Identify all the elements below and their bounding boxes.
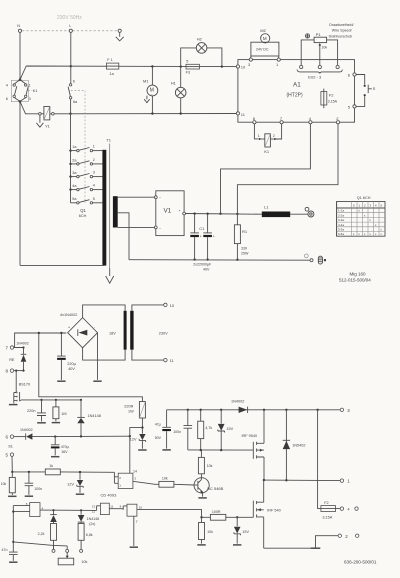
trimmer 10k [52,549,88,564]
CD4093 gate G4 (trigger gate) [114,472,136,488]
svg-text:M2: M2 [260,28,266,33]
svg-text:636-200-500/01: 636-200-500/01 [344,559,377,564]
capacitor C1a [190,214,202,261]
wiper feedback wire [13,542,67,549]
bridge rectifier 4x1N4002 [60,313,98,348]
svg-text:3-3a: 3-3a [338,218,344,222]
reservoir capacitor 47u 50V [155,410,171,449]
wire A1 pin 2 to R1 top [237,124,338,214]
svg-text:Drahtvorschub: Drahtvorschub [329,34,352,38]
switch K1 (DPST mains switch) [6,78,38,102]
switch Q1 contact 1a [71,145,103,152]
svg-text:BS170: BS170 [19,382,30,386]
oscillator gate G2 [92,503,114,514]
IRF9540 gate line [188,449,254,451]
zener 12V (gate input clamp) [67,472,83,493]
terminal 1 [340,479,350,484]
+18V unregulated feed to 220R [39,333,143,402]
fuse F1 1a [106,58,118,76]
svg-text:M: M [263,36,267,41]
gate pulldown 10k [199,516,214,544]
svg-text:K1: K1 [33,88,39,93]
bridge AC bottom to 18V winding [83,348,126,360]
svg-text:K1: K1 [264,149,270,154]
wire 12V node to terminal-6 line [130,428,143,437]
wire terminal 7 to +18V rail [14,333,67,348]
svg-text:N: N [17,24,20,28]
plus output terminal [305,207,314,217]
lamp H1 [171,67,186,115]
svg-text:5: 5 [93,197,95,201]
svg-text:4,7k: 4,7k [205,426,212,430]
wire K1 to left down-rail [19,102,21,266]
svg-text:220R: 220R [124,404,133,408]
svg-text:25W: 25W [241,251,249,255]
BS170 source ground [9,404,18,406]
svg-text:L1: L1 [264,205,269,210]
svg-text:5-5a: 5-5a [338,228,344,232]
svg-text:E02 - 3: E02 - 3 [308,74,322,79]
terminal 5 [6,453,14,458]
svg-text:IRF 540: IRF 540 [267,508,281,512]
CD4093 Vdd pin 14 feed [129,436,131,473]
switch Q1 contact 3a [71,171,103,178]
node H1 tap [180,65,182,67]
svg-text:100n: 100n [173,430,181,434]
svg-text:+: + [213,235,215,239]
svg-text:10k: 10k [207,530,213,534]
resistor 220R 1W [124,402,145,429]
svg-text:C1: C1 [199,226,205,231]
svg-text:F 1: F 1 [107,58,113,62]
tap table Q1 6CH [337,196,385,236]
zener 15V (IRF540 gate) [234,516,250,544]
svg-text:1: 1 [29,84,31,88]
svg-text:6,8k: 6,8k [86,533,93,537]
minus rail [129,259,310,262]
relay coil K1 [254,124,281,154]
svg-text:2: 2 [273,134,275,138]
svg-text:2,2k: 2,2k [38,532,45,536]
svg-text:3,15A: 3,15A [322,516,332,520]
svg-text:M1: M1 [143,79,149,84]
node H2 return tap [221,65,223,67]
svg-text:Wire Speed/: Wire Speed/ [332,29,352,33]
wire N down to K1 [19,32,21,79]
motor M1 (fan) [143,67,158,115]
svg-text:Q1: Q1 [80,208,86,213]
svg-text:1N4002: 1N4002 [16,341,29,345]
svg-text:3: 3 [29,97,31,101]
control unit A1 (HT2P) [236,58,356,124]
terminal 6 [6,435,14,440]
minus output terminal [304,254,326,264]
220n ground [37,422,46,424]
terminal 11 [132,350,175,364]
svg-text:47n: 47n [2,548,8,552]
svg-text:4x1N4002: 4x1N4002 [60,313,77,317]
potentiometer P1 10k wire speed [301,32,337,66]
svg-text:A1: A1 [293,82,301,89]
svg-text:1-1a: 1-1a [338,209,344,213]
switch 6a [68,79,78,104]
svg-text:1: 1 [258,134,260,138]
M1 ground [144,96,149,103]
terminal N [17,24,21,32]
svg-text:~: ~ [159,196,161,200]
relay flyback diode 1N4002 (RE) [9,341,29,370]
svg-text:1N4002: 1N4002 [20,428,33,432]
output choke L1 [262,205,308,218]
svg-text:230V: 230V [159,331,168,335]
svg-text:12: 12 [92,509,96,513]
fuse F2 3.15A [321,501,340,519]
svg-text:CD 4093: CD 4093 [101,493,118,498]
G1 output wire [40,509,97,511]
diode 1N4002 (terminal 6) [14,428,54,440]
bottom rail junction at feed [70,114,72,203]
collector resistor 10k [198,450,212,474]
svg-text:F2: F2 [329,93,334,98]
steering diode 1N4148 b [78,510,99,526]
resistor 1k [45,464,114,475]
svg-text:10k: 10k [207,464,213,468]
gate G4 output to base resistor 10k [133,481,159,484]
svg-text:15V: 15V [242,530,249,534]
suppressor Y1 [39,107,55,129]
svg-text:F3: F3 [186,71,190,75]
svg-text:6CH: 6CH [79,214,87,218]
steering diode 1N4148 a [50,510,57,523]
svg-text:10k: 10k [162,477,168,481]
PSU transformer 18V winding [124,311,127,350]
timing capacitor 47n [2,548,18,561]
connector E02-3 [297,65,342,79]
svg-text:47µ: 47µ [155,423,161,427]
fuse F3 [186,60,200,75]
rectifier V1 [154,191,185,236]
svg-text:1N5402: 1N5402 [292,444,305,448]
1M ground [52,422,60,424]
node 6a/Q1 feed junction [69,113,71,115]
svg-text:4-4a: 4-4a [338,223,344,227]
wire bottom of primary [20,264,104,266]
svg-text:220n: 220n [27,409,35,413]
trigger node wire [12,471,45,473]
Y1 ground [36,115,43,127]
svg-text:100R: 100R [212,510,221,514]
resistor 100R [202,510,253,520]
wire secondary top tap to V1 [118,196,155,198]
BS170 gate line [21,399,81,401]
capacitor 220n [27,400,46,422]
svg-text:220µ: 220µ [67,362,76,366]
capacitor 100n (trigger) [25,472,43,495]
transformer T1 core [109,144,111,269]
svg-text:(2x): (2x) [89,522,95,526]
svg-text:16V: 16V [61,450,68,454]
svg-text:10k: 10k [81,560,87,564]
svg-text:12V: 12V [130,437,137,441]
top rail wire to A1 pin 10 [20,66,236,80]
svg-text:4: 4 [6,84,8,88]
svg-text:10k: 10k [321,46,327,50]
svg-text:1W: 1W [128,409,134,413]
capacitor 100n (gate drive) [173,410,192,450]
series diode 1N4002 (rail) [231,399,248,413]
svg-text:24V DC: 24V DC [256,47,269,51]
wire terminal 8 to diode and BS170 drain [14,370,24,372]
24V rail from terminal 3 [167,409,341,411]
capacitor C1b [203,214,215,261]
svg-text:6: 6 [6,97,8,101]
svg-text:1N4002: 1N4002 [231,399,244,403]
switch Q1 contact 5a [71,197,103,204]
svg-text:5: 5 [186,60,188,64]
svg-text:6: 6 [73,79,75,83]
resistor 2.2k [38,524,57,550]
svg-text:Mig 160: Mig 160 [350,272,367,277]
svg-text:F2: F2 [324,501,328,505]
internal fuse F2 3.15A [321,89,338,109]
freewheel diode 1N5402 [283,410,306,481]
wire 6a to feed node [70,99,72,114]
bleeder resistor R1 330 25W [234,214,249,261]
svg-text:+: + [200,235,202,239]
switch Q1 contact 2a [71,158,103,165]
base resistor 10k [159,477,194,488]
svg-text:12V: 12V [67,483,74,487]
terminal L [69,24,72,32]
MOSFET IRF540 [252,480,281,548]
wire feed motor M2 24V DC [251,28,279,58]
svg-text:2-2a: 2-2a [338,213,344,217]
svg-text:1N4148: 1N4148 [88,414,101,418]
plus rail from V1 to L1 [186,213,262,216]
svg-text:1N4148: 1N4148 [87,517,100,521]
bridge minus to ground [97,333,99,380]
terminal 8 [6,369,14,374]
svg-text:4: 4 [93,184,95,188]
svg-text:512-015-500/04: 512-015-500/04 [339,278,371,283]
svg-text:RE: RE [9,358,15,362]
torch switch S [356,75,376,107]
wire Y1 to A1 pin 11 [54,113,236,115]
G3 output to gate drive [137,509,202,517]
diode 1N4148 gate clamp [77,400,101,436]
svg-text:6-6a: 6-6a [338,232,344,236]
mains protective earth [116,29,124,41]
MOSFET IRF9540 [242,410,265,480]
source return to terminal 2 [264,536,338,549]
mechanical coupling dashed link [71,91,85,203]
pulldown resistor 10k [1,472,16,495]
svg-text:Draadsnelheid/: Draadsnelheid/ [329,23,353,27]
svg-text:15V: 15V [226,427,233,431]
svg-text:P1: P1 [316,32,322,37]
svg-text:18V: 18V [109,331,116,335]
svg-text:330: 330 [241,246,247,250]
wire terminal 5 down to trigger node [11,456,13,472]
svg-text:3: 3 [93,171,95,175]
lamp H2 (fuse indicator) [181,36,222,66]
resistor 4.7k [198,410,213,450]
svg-text:L: L [69,24,71,28]
transformer T1 primary winding [102,150,106,266]
transformer T1 secondary winding [113,196,118,227]
wire speed caption [329,23,354,38]
svg-text:S1: S1 [8,444,13,448]
svg-text:2: 2 [93,158,95,162]
svg-text:1: 1 [93,145,95,149]
svg-text:BC 546B: BC 546B [207,486,223,491]
G2 to G3 wire [109,506,127,510]
svg-text:3,15A: 3,15A [328,100,338,104]
terminal 2 [338,534,359,539]
terminal 10 [132,303,175,311]
12V zener ground [138,449,146,451]
svg-text:470µ: 470µ [61,445,69,449]
svg-text:7: 7 [136,520,138,524]
svg-text:13: 13 [92,504,96,508]
svg-text:~: ~ [159,226,161,230]
svg-text:(HT2P): (HT2P) [287,93,303,99]
oscillator gate G3 [120,504,143,516]
svg-text:H2: H2 [197,36,203,41]
wire L down to 6a switch [70,32,72,83]
svg-text:T1: T1 [106,138,111,143]
svg-text:Q1 6CH: Q1 6CH [357,196,371,200]
feedback node vertical [12,512,14,552]
PSU transformer 230V winding [130,311,133,350]
terminal 4 [340,507,358,512]
switch Q1 contact 4a [71,184,103,191]
mains dashed entry line [18,30,122,32]
transistor BC546B [194,474,224,497]
svg-text:10k: 10k [1,482,7,486]
svg-text:10: 10 [241,65,246,70]
svg-text:14: 14 [133,469,137,473]
wire secondary bottom tap to V1 [118,226,155,228]
svg-text:Y1: Y1 [45,123,51,128]
wire rail to fuse F2 [318,410,321,509]
svg-text:1k: 1k [49,464,53,468]
oscillator gate G1 [13,502,43,517]
svg-text:11: 11 [110,504,113,508]
terminal 7 [6,346,14,351]
svg-text:IRF 9540: IRF 9540 [242,434,258,438]
svg-text:100n: 100n [34,487,42,491]
wire K1 to Y1 [20,102,39,114]
svg-text:230V 50Hz: 230V 50Hz [57,15,82,21]
resistor 1M [53,400,67,421]
node M1 tap [151,65,153,67]
capacitor 220u 40V [57,333,77,380]
node top rail at L [70,65,72,67]
svg-text:R1: R1 [242,229,248,234]
svg-text:S: S [373,86,376,91]
svg-text:40V: 40V [203,267,210,271]
zener 12V [130,428,146,449]
wire secondary centre tap down to minus rail [118,213,129,260]
wire A1 pin 4 to plus rail [221,124,311,214]
svg-text:10: 10 [170,303,175,308]
svg-text:40V: 40V [68,367,75,371]
capacitor 470u 16V [51,437,69,456]
12V supply line to CD4093 [54,435,56,437]
220u ground [57,380,65,382]
T1 core ground arrow [106,268,114,283]
svg-text:2x22000µF: 2x22000µF [193,262,212,266]
output rail to terminal 1 [264,479,341,482]
terminal 3 [340,408,350,413]
resistor 6.8k [78,524,93,550]
svg-text:1M: 1M [61,412,66,416]
svg-text:50V: 50V [155,436,162,440]
bridge AC top to 18V winding [83,305,126,318]
svg-text:H1: H1 [171,80,177,85]
svg-text:V1: V1 [164,208,172,215]
G3 ground pin 7 [133,516,135,546]
transistor BS170 [14,371,30,404]
svg-text:+: + [179,209,181,213]
zener 15V (gate protection) [218,410,234,450]
